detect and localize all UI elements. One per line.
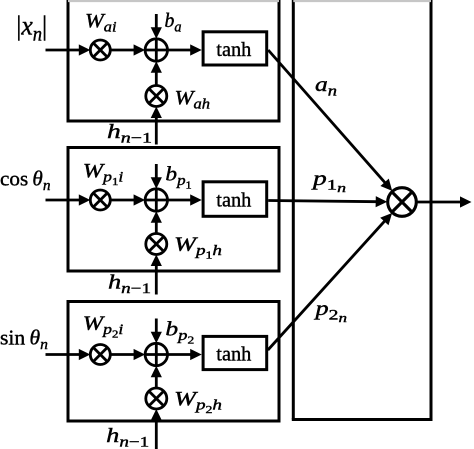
svg-text:an: an bbox=[315, 74, 337, 100]
svg-text:tanh: tanh bbox=[216, 190, 251, 212]
svg-text:p1n: p1n bbox=[310, 168, 346, 195]
svg-text:Wp1h: Wp1h bbox=[174, 234, 222, 262]
svg-text:hn−1: hn−1 bbox=[107, 121, 152, 147]
svg-text:bp1: bp1 bbox=[165, 164, 191, 192]
svg-text:tanh: tanh bbox=[216, 344, 251, 366]
svg-text:sin θn: sin θn bbox=[0, 325, 48, 353]
svg-text:bp2: bp2 bbox=[165, 319, 194, 347]
svg-text:hn−1: hn−1 bbox=[106, 425, 149, 449]
svg-text:Wp1i: Wp1i bbox=[83, 160, 124, 188]
svg-text:tanh: tanh bbox=[216, 39, 251, 61]
svg-text:|xn|: |xn| bbox=[16, 11, 47, 46]
svg-text:cos θn: cos θn bbox=[0, 167, 51, 195]
svg-text:Wp2h: Wp2h bbox=[174, 388, 222, 416]
svg-text:Wah: Wah bbox=[175, 87, 211, 113]
svg-text:ba: ba bbox=[165, 10, 182, 36]
svg-text:hn−1: hn−1 bbox=[108, 272, 151, 298]
svg-text:Wp2i: Wp2i bbox=[83, 313, 124, 341]
svg-text:Wai: Wai bbox=[85, 10, 117, 36]
svg-text:p2n: p2n bbox=[313, 298, 347, 325]
